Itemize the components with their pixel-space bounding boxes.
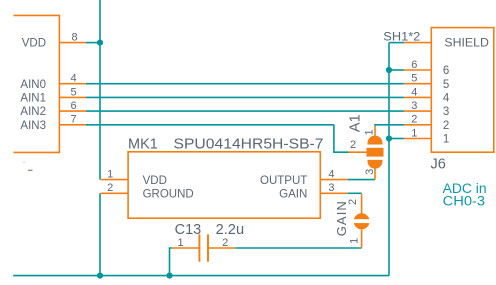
- svg-text:3: 3: [443, 106, 449, 118]
- GAIN pin 2 stub: [361, 194, 363, 213]
- wire AIN3 down to A1 pin2: [334, 125, 349, 152]
- svg-text:5: 5: [70, 86, 76, 98]
- capacitor C13 plate 1: [198, 234, 200, 261]
- svg-text:GROUND: GROUND: [143, 189, 194, 201]
- svg-text:5: 5: [411, 73, 417, 85]
- A1 pin 1 stub: [374, 126, 376, 137]
- svg-text:AIN0: AIN0: [20, 79, 46, 91]
- artifact smudge: [23, 162, 26, 164]
- MK1 pin 4 stub: [320, 179, 347, 181]
- wire J6 pin6: [389, 69, 404, 71]
- svg-text:VDD: VDD: [22, 38, 46, 50]
- svg-text:7: 7: [70, 114, 76, 126]
- svg-text:AIN3: AIN3: [20, 120, 46, 132]
- wire C13 pin2 to GAIN jumper: [235, 247, 361, 249]
- solder jumper GAIN gap: [353, 219, 371, 223]
- capacitor C13 plate 2: [207, 234, 209, 261]
- solder jumper GAIN pad: [354, 213, 370, 229]
- svg-text:8: 8: [71, 32, 77, 44]
- pin 6 AIN2 stub: [59, 110, 86, 112]
- wire C13 pin1 to bus: [170, 248, 173, 276]
- svg-text:1: 1: [363, 129, 375, 135]
- connector SV (left) box: [14, 15, 60, 152]
- svg-text:A1: A1: [348, 114, 364, 132]
- wire AIN1: [86, 96, 404, 98]
- A1 pin 2 stub: [349, 151, 368, 153]
- svg-text:2: 2: [411, 114, 417, 126]
- pin 5 AIN1 stub: [59, 96, 86, 98]
- svg-text:MK1: MK1: [128, 137, 158, 153]
- wire bus ground bottom: [13, 275, 389, 277]
- svg-text:6: 6: [70, 100, 76, 112]
- J6 SHIELD pin stub: [404, 42, 431, 44]
- wire AIN3: [86, 124, 334, 126]
- svg-text:SPU0414HR5H-SB-7: SPU0414HR5H-SB-7: [174, 137, 324, 153]
- connector J6 box: [431, 28, 494, 153]
- J6 pin 5 stub: [404, 83, 431, 85]
- wire SH1*2 vertical: [388, 43, 390, 276]
- svg-text:SHIELD: SHIELD: [444, 38, 489, 50]
- J6 pin 1 stub: [404, 138, 431, 140]
- pin 4 AIN0 stub: [59, 83, 86, 85]
- J6 pin 4 stub: [404, 96, 431, 98]
- wire A1 pin1 up to J6 pin2 row: [374, 124, 404, 126]
- svg-text:1: 1: [177, 237, 183, 249]
- junction bus-C13: [166, 273, 172, 279]
- svg-text:5: 5: [443, 79, 449, 91]
- solder jumper A1 pad middle: [367, 148, 384, 157]
- svg-text:4: 4: [328, 169, 334, 181]
- MK1 pin 2 stub: [101, 192, 128, 194]
- svg-text:2: 2: [347, 199, 359, 205]
- svg-text:6: 6: [443, 65, 449, 77]
- solder jumper A1 pad top: [368, 136, 383, 145]
- IC MK1 box: [128, 152, 320, 218]
- svg-text:AIN1: AIN1: [20, 93, 46, 105]
- svg-text:SH1*2: SH1*2: [383, 32, 420, 44]
- svg-text:C13: C13: [175, 222, 202, 238]
- GAIN pin 1 stub: [361, 229, 363, 248]
- wire OUTPUT to A1 pin3: [348, 179, 375, 181]
- svg-text:1: 1: [107, 169, 113, 181]
- svg-text:4: 4: [411, 86, 417, 98]
- svg-text:2: 2: [222, 237, 228, 249]
- wire GROUND down to bus: [99, 193, 101, 275]
- svg-text:1: 1: [411, 127, 417, 139]
- junction pin1: [386, 135, 392, 141]
- C13 pin 2 stub: [209, 247, 236, 249]
- svg-text:4: 4: [70, 73, 76, 85]
- svg-text:3: 3: [328, 182, 334, 194]
- MK1 pin 3 stub: [320, 192, 347, 194]
- svg-text:4: 4: [443, 93, 450, 105]
- svg-text:VDD: VDD: [143, 175, 167, 187]
- wire AIN0: [86, 83, 404, 85]
- svg-text:1: 1: [349, 238, 361, 244]
- svg-text:2.2u: 2.2u: [216, 222, 245, 238]
- J6 pin 2 stub: [404, 124, 431, 126]
- wire VDD down to MK1 pin1: [99, 43, 101, 180]
- solder jumper A1 pad bottom: [368, 160, 383, 169]
- A1 pin 3 stub: [374, 168, 376, 180]
- junction pin6: [386, 67, 392, 73]
- wire VDD pin8 to junction: [86, 42, 100, 44]
- artifact dash: [28, 170, 33, 171]
- wire AIN2: [86, 110, 404, 112]
- svg-text:OUTPUT: OUTPUT: [260, 175, 307, 187]
- J6 pin 6 stub: [404, 69, 431, 71]
- C13 pin 1 stub: [172, 247, 199, 249]
- wire VDD up to top edge: [99, 0, 101, 43]
- svg-text:3: 3: [411, 100, 417, 112]
- wire shield row to J6: [389, 42, 404, 44]
- svg-text:GAIN: GAIN: [279, 189, 307, 201]
- pin 8 VDD stub: [59, 42, 86, 44]
- junction bus-MK1 ground: [97, 273, 103, 279]
- svg-text:6: 6: [411, 59, 417, 71]
- wire GAIN pin3 to jumper: [348, 192, 362, 194]
- J6 pin 3 stub: [404, 110, 431, 112]
- svg-text:2: 2: [350, 139, 356, 151]
- wire J6 pin1: [389, 138, 404, 140]
- svg-text:1: 1: [443, 134, 449, 146]
- svg-text:J6: J6: [431, 157, 446, 173]
- junction VDD: [97, 40, 103, 46]
- svg-text:AIN2: AIN2: [20, 106, 46, 118]
- svg-text:3: 3: [364, 169, 376, 175]
- svg-text:2: 2: [107, 182, 113, 194]
- svg-text:CH0-3: CH0-3: [443, 193, 486, 208]
- pin 7 AIN3 stub: [59, 124, 86, 126]
- svg-text:2: 2: [443, 120, 449, 132]
- MK1 pin 1 stub: [101, 179, 128, 181]
